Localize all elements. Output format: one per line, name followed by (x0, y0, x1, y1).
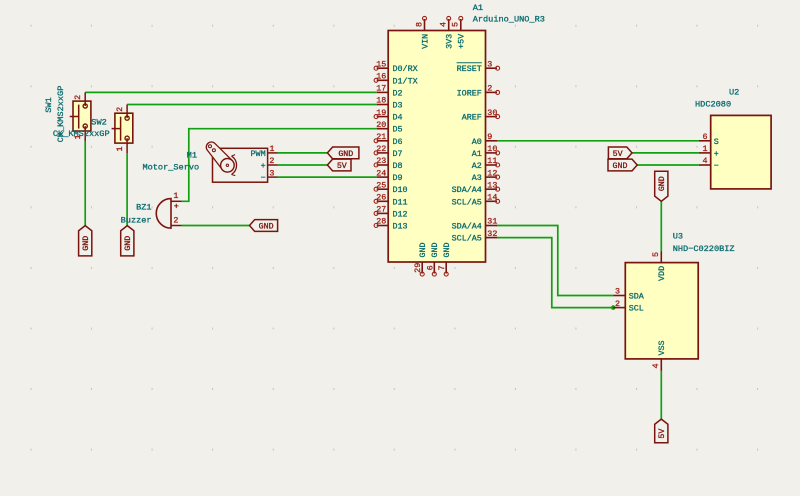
pin 4 − of U2 (699, 156, 719, 171)
svg-text:9: 9 (487, 132, 492, 142)
pin 25 D10 (374, 180, 407, 195)
svg-text:U3: U3 (673, 232, 683, 242)
pin 15 D0/RX (374, 59, 418, 74)
wire U3 VSS to 5V flag (660, 371, 662, 419)
svg-text:GND: GND (82, 236, 91, 251)
display U3 NHD-C0220BIZ body (625, 263, 698, 359)
svg-text:−: − (714, 161, 719, 171)
pin 11 A2 (472, 156, 500, 171)
svg-text:2: 2 (487, 84, 492, 94)
svg-text:+: + (261, 161, 266, 171)
pin 2 of BZ1 (172, 215, 182, 225)
svg-text:CK_KMS2xxGP: CK_KMS2xxGP (53, 129, 110, 139)
pin 1 of M1 PWM (251, 144, 278, 159)
pin 18 D3 (376, 96, 402, 111)
pin 32 SCL/A5 (452, 229, 498, 244)
label A1 Arduino_UNO_R3 (473, 3, 545, 25)
svg-text:PWM: PWM (251, 149, 266, 159)
svg-text:3V3: 3V3 (445, 34, 455, 49)
pin 7 GND (437, 242, 452, 276)
svg-text:U2: U2 (729, 87, 739, 97)
svg-text:2: 2 (73, 95, 83, 100)
svg-text:2: 2 (173, 215, 178, 225)
pin 2 of SW2 (115, 105, 127, 119)
svg-text:D1/TX: D1/TX (393, 76, 418, 86)
svg-text:BZ1: BZ1 (136, 203, 151, 213)
pin 30 AREF (462, 108, 500, 123)
wire BZ1 pin2 to GND flag (182, 225, 250, 227)
svg-text:D8: D8 (393, 161, 403, 171)
svg-text:NHD−C0220BIZ: NHD−C0220BIZ (673, 244, 735, 254)
svg-text:GND: GND (442, 242, 452, 257)
svg-text:4: 4 (702, 156, 707, 166)
svg-text:AREF: AREF (462, 113, 482, 123)
pin 27 D12 (374, 205, 407, 220)
svg-text:RESET: RESET (457, 64, 482, 74)
svg-text:D12: D12 (393, 209, 408, 219)
svg-text:5: 5 (451, 22, 461, 27)
svg-text:A1: A1 (473, 3, 483, 13)
svg-text:1: 1 (115, 146, 125, 151)
svg-text:+: + (174, 201, 179, 211)
svg-text:GND: GND (259, 223, 274, 232)
pin 1 + of U2 (699, 144, 719, 159)
svg-text:1: 1 (702, 144, 707, 154)
svg-text:S: S (714, 137, 719, 147)
svg-text:D7: D7 (393, 149, 403, 159)
power flag 5V (M1 pin2) (327, 159, 351, 171)
svg-text:20: 20 (376, 120, 386, 130)
pin 20 D5 (376, 120, 402, 135)
svg-text:SCL/A5: SCL/A5 (452, 234, 482, 244)
switch SW2 (53, 105, 133, 154)
pin 2 of M1 + (261, 156, 278, 171)
svg-text:M1: M1 (187, 150, 197, 160)
svg-text:IOREF: IOREF (457, 88, 482, 98)
svg-text:3: 3 (269, 168, 274, 178)
arduino U1 A1 body (388, 31, 485, 263)
wire SW2 pin2 to A1 D3 (127, 104, 377, 106)
label U3 NHD-C0220BIZ (673, 232, 735, 255)
pin 4 VSS of U3 (651, 340, 667, 370)
pin 12 A3 (472, 168, 500, 183)
label BZ1 Buzzer (121, 203, 152, 226)
wire SW1 pin1 to GND flag (84, 141, 86, 226)
svg-text:VDD: VDD (657, 266, 667, 281)
sensor U2 HDC2080 body (711, 115, 771, 188)
label SW1 CK_KMS2xxGP (44, 86, 66, 143)
pin 2 SCL of U3 (613, 299, 644, 314)
svg-text:2: 2 (615, 299, 620, 309)
wire BZ1 pin1 to A1 D5 (182, 129, 377, 202)
svg-text:8: 8 (414, 22, 424, 27)
pin 24 D9 (376, 168, 402, 183)
svg-text:5V: 5V (658, 429, 667, 439)
svg-text:Motor_Servo: Motor_Servo (142, 162, 199, 172)
junction on U3 SCL net (611, 305, 616, 310)
svg-text:+: + (714, 149, 719, 159)
power flag GND (BZ1 pin2) (250, 220, 278, 232)
pin 29 GND (413, 242, 428, 276)
pin 5 VDD of U3 (651, 251, 667, 281)
svg-text:D0/RX: D0/RX (393, 64, 418, 74)
svg-text:SDA/A4: SDA/A4 (452, 185, 482, 195)
pin 10 A1 (472, 144, 500, 159)
svg-text:Arduino_UNO_R3: Arduino_UNO_R3 (473, 15, 545, 25)
svg-text:D5: D5 (393, 125, 403, 135)
svg-text:D4: D4 (393, 113, 403, 123)
pin 8 VIN (414, 16, 430, 48)
wire A1 A0 to U2 S (497, 140, 699, 142)
pin 22 D7 (374, 144, 402, 159)
svg-text:4: 4 (439, 22, 449, 27)
power flag GND (M1 pin1) (327, 147, 359, 159)
svg-text:+5V: +5V (457, 34, 467, 49)
pin 9 A0 (472, 132, 497, 147)
pin 14 SCL/A5 (452, 193, 500, 208)
svg-text:D2: D2 (393, 88, 403, 98)
svg-text:A0: A0 (472, 137, 482, 147)
svg-text:5V: 5V (337, 162, 347, 171)
pin 17 D2 (376, 84, 402, 99)
wire A1 SCL/A5 to U3 SCL (497, 238, 613, 308)
label SW2 CK_KMS2xxGP (53, 118, 110, 139)
svg-text:3: 3 (487, 59, 492, 69)
power flag GND (U3 VDD) (655, 171, 668, 201)
svg-text:A2: A2 (472, 161, 482, 171)
svg-text:−: − (261, 173, 266, 183)
pin 6 GND (425, 242, 440, 276)
pin 3 RESET (457, 59, 500, 74)
svg-text:29: 29 (413, 263, 423, 273)
svg-text:GND: GND (430, 242, 440, 257)
power flag GND (SW1) (79, 226, 92, 256)
svg-text:Buzzer: Buzzer (121, 216, 152, 226)
svg-text:D10: D10 (393, 185, 408, 195)
svg-text:6: 6 (702, 132, 707, 142)
power flag 5V (U3 VSS) (655, 419, 668, 443)
svg-text:VSS: VSS (657, 340, 667, 355)
svg-text:5: 5 (651, 252, 661, 257)
pin 26 D11 (374, 193, 407, 208)
pin 21 D6 (374, 132, 402, 147)
pin 13 SDA/A4 (452, 180, 500, 195)
svg-text:SCL: SCL (629, 304, 644, 314)
wire M1 pin3 to A1 D9 (278, 176, 377, 178)
svg-text:GND: GND (338, 150, 353, 159)
pin 2 of SW1 (73, 92, 85, 106)
svg-text:4: 4 (651, 363, 661, 368)
pin 3 of M1 - (261, 168, 278, 183)
svg-text:SDA: SDA (629, 292, 645, 302)
wire GND flag to U2 - (637, 164, 699, 166)
pin 1 of SW1 (73, 126, 85, 141)
label U2 HDC2080 (695, 87, 739, 109)
svg-text:32: 32 (487, 229, 497, 239)
svg-text:24: 24 (376, 168, 386, 178)
svg-text:SW2: SW2 (91, 118, 106, 128)
svg-text:D11: D11 (393, 197, 408, 207)
pin 19 D4 (374, 108, 402, 123)
wire A1 SDA/A4 to U3 SDA (497, 226, 613, 296)
svg-text:D3: D3 (393, 101, 403, 111)
svg-text:GND: GND (124, 236, 133, 251)
svg-text:A1: A1 (472, 149, 482, 159)
wire M1 pin2 to 5V flag (278, 164, 328, 166)
pin 4 3V3 (439, 16, 455, 48)
switch SW1 (44, 86, 91, 143)
svg-text:GND: GND (658, 176, 667, 191)
svg-text:SDA/A4: SDA/A4 (452, 222, 482, 232)
buzzer BZ1 (121, 191, 182, 228)
pin 2 IOREF (457, 84, 500, 99)
svg-text:6: 6 (425, 265, 435, 270)
svg-text:2: 2 (115, 107, 125, 112)
power flag GND (SW2) (121, 226, 134, 256)
svg-text:2: 2 (269, 156, 274, 166)
svg-text:GND: GND (613, 162, 628, 171)
svg-text:A3: A3 (472, 173, 482, 183)
power flag 5V (U2 pin1) (608, 147, 632, 159)
svg-text:18: 18 (376, 96, 386, 106)
pin 5 +5V (451, 16, 467, 48)
power flag GND (U2 pin4) (608, 159, 637, 171)
svg-text:D13: D13 (393, 222, 408, 232)
svg-text:HDC2080: HDC2080 (695, 99, 731, 109)
pin 23 D8 (374, 156, 402, 171)
switch SW1 body (70, 101, 91, 131)
svg-text:7: 7 (437, 265, 447, 270)
svg-text:17: 17 (376, 84, 386, 94)
pin 6 S of U2 (699, 132, 719, 147)
wire SW2 pin1 to GND flag (126, 153, 128, 226)
svg-text:D9: D9 (393, 173, 403, 183)
svg-text:SW1: SW1 (44, 97, 54, 112)
wire GND flag to U3 VDD (660, 201, 662, 251)
svg-text:5V: 5V (613, 150, 623, 159)
pin 1 of SW2 (115, 138, 127, 153)
label M1 Motor_Servo (142, 150, 199, 172)
pin 16 D1/TX (374, 72, 418, 87)
svg-text:3: 3 (615, 287, 620, 297)
pin 28 D13 (374, 217, 407, 232)
wire SW1 pin2 to A1 D2 (85, 91, 377, 93)
svg-text:D6: D6 (393, 137, 403, 147)
pin 1 of BZ1 (+) (172, 191, 182, 211)
wire M1 pin1 to GND flag (278, 152, 328, 154)
svg-text:31: 31 (487, 217, 497, 227)
pin 31 SDA/A4 (452, 217, 498, 232)
svg-text:1: 1 (173, 191, 178, 201)
wire 5V flag to U2 + (632, 152, 699, 154)
switch SW2 body (112, 113, 133, 143)
motor M1 Motor_Servo body (206, 142, 267, 182)
svg-text:SCL/A5: SCL/A5 (452, 197, 482, 207)
svg-text:VIN: VIN (420, 34, 430, 49)
pin 3 SDA of U3 (613, 287, 645, 302)
svg-text:GND: GND (418, 242, 428, 257)
svg-text:1: 1 (269, 144, 274, 154)
